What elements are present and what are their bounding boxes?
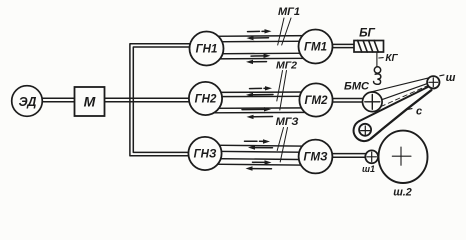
node Ш.2 center cross (392, 147, 411, 165)
svg-text:МГЗ: МГЗ (276, 116, 299, 128)
wire leader lines МГ3 (277, 128, 287, 163)
wire leader dash for С label (406, 109, 413, 110)
component ЭД electric motor circle (12, 86, 43, 117)
component ГМ2 motor circle (299, 83, 332, 116)
svg-text:МГ1: МГ1 (278, 6, 300, 18)
wire leader dash for КГ (379, 57, 383, 59)
component Ш.2 large sheave circle (379, 131, 428, 183)
component ГН1 pump circle (190, 32, 224, 66)
component Ш1 sheave (crossed circle) (365, 150, 378, 163)
svg-text:ш: ш (446, 72, 456, 84)
wire leader lines МГ2 (277, 71, 287, 111)
svg-text:ЭД: ЭД (19, 95, 37, 109)
wire hydraulic lines row 2 (МГ2 pipes) (212, 92, 310, 113)
svg-text:МГ2: МГ2 (276, 60, 297, 72)
svg-text:ГНЗ: ГНЗ (194, 149, 217, 161)
svg-text:КГ: КГ (385, 53, 398, 64)
svg-text:М: М (84, 94, 96, 110)
wire rope from БМС pulley to sheave Ш (two thin lines) (370, 78, 429, 100)
node flow arrows row 1 (246, 29, 272, 64)
wire shaft ГМ1 to БГ (double line) (330, 44, 355, 47)
wire shaft ГМ2 to БМС pulley (double line) (330, 99, 364, 103)
component ГМ1 motor circle (299, 30, 333, 64)
svg-text:с: с (416, 106, 422, 118)
svg-text:ГН2: ГН2 (195, 94, 217, 106)
component БМС pulley (crossed circle) (363, 92, 383, 112)
wire shaft ГМ3 to Ш1 (double line) (330, 154, 367, 158)
wire leader lines МГ1 (278, 18, 291, 45)
svg-text:ш.2: ш.2 (393, 186, 412, 198)
svg-text:ГМЗ: ГМЗ (303, 152, 328, 164)
wire link C top edge (thick) (359, 87, 428, 122)
svg-text:БМС: БМС (344, 81, 370, 93)
wire rope from БГ down to hook (376, 52, 378, 67)
component ГМ3 motor circle (299, 140, 333, 174)
wire leader dash for Ш label (440, 74, 444, 77)
wire hydraulic lines row 3 (МГ3 pipes) (212, 145, 310, 165)
wire distribution bus with top and bottom branches (double line) (130, 44, 190, 156)
wire shaft М to bus (double line) (104, 98, 190, 102)
component КГ hook (374, 67, 381, 85)
wire link C rounded cap around lower pulley (354, 121, 372, 141)
svg-text:БГ: БГ (359, 26, 375, 40)
node flow arrows row 2 (242, 86, 273, 119)
component БГ hoist drum (hatched) (354, 41, 384, 53)
component М gearbox (75, 87, 105, 116)
component Ш sheave (crossed circle) (427, 76, 439, 88)
component ГН3 pump circle (188, 137, 221, 170)
component ГН2 pump circle (189, 82, 222, 115)
node flow arrows row 3 (245, 139, 273, 170)
wire link C bottom edge (thick) (371, 90, 431, 138)
svg-text:ГМ1: ГМ1 (304, 42, 327, 54)
svg-text:ш1: ш1 (362, 164, 375, 174)
wire link centerline (dashed axis of link C) (381, 86, 428, 107)
wire hydraulic lines row 1 (МГ1 pipes) (212, 36, 310, 59)
svg-text:ГМ2: ГМ2 (304, 95, 328, 107)
wire shaft ЭД to М (double line) (42, 98, 76, 102)
svg-text:ГН1: ГН1 (196, 44, 218, 56)
component lower pulley of link (crossed circle) (359, 124, 371, 136)
